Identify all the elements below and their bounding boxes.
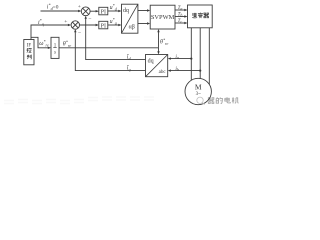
arrow into dq/ab upper	[118, 10, 121, 12]
wire: summing junction 1 to PI1	[90, 10, 98, 12]
arrow into dq/ab lower	[118, 24, 121, 26]
arrow into summing junction 1	[78, 10, 81, 12]
wire: PI2 to dq/ab block, uq*	[108, 24, 121, 26]
wire: theta* branch up into SVPWM	[158, 30, 160, 48]
svg-text:αβ: αβ	[129, 25, 135, 31]
SVPWM block	[150, 5, 175, 29]
svg-text:3~: 3~	[196, 92, 202, 97]
svg-text:PI: PI	[101, 23, 106, 29]
arrow into SVPWM lower	[147, 22, 150, 24]
arrow into inverter Tb	[184, 15, 187, 17]
arrow into inverter Ta	[184, 9, 187, 11]
wire: dq/ab to SVPWM lower	[138, 23, 149, 25]
svg-text:IF: IF	[27, 43, 32, 48]
svg-text:M: M	[195, 83, 202, 92]
integrator 1/s block	[51, 37, 59, 58]
PI controller 2	[99, 21, 108, 29]
svg-text:−: −	[78, 30, 81, 36]
summing junction 2 (iq)	[71, 21, 79, 29]
svg-text:−: −	[88, 16, 91, 22]
arrow up into summing junction 2 bottom	[74, 29, 76, 32]
wire: ib tap to dq/abc	[169, 70, 200, 72]
arrow into dq/abc right lower (ib)	[168, 69, 171, 71]
wire: dq/ab to SVPWM upper	[138, 10, 149, 12]
wire: feedback id vertical into summing junction 1	[86, 17, 146, 60]
arrow down into dq/abc top (theta)	[157, 51, 159, 54]
svg-text:Ta: Ta	[178, 6, 183, 11]
wire: PI1 to dq/ab block, ud*	[108, 10, 121, 12]
wire: summing junction 2 to PI2	[80, 24, 98, 26]
wire: omega* path from IF control to 1/s	[31, 37, 50, 48]
svg-text:+: +	[78, 4, 81, 10]
svg-text:SVPWM: SVPWM	[151, 14, 175, 21]
wire: ia tap to dq/abc	[169, 58, 191, 60]
inverter block (ni bian qi)	[188, 5, 213, 28]
svg-text:+: +	[64, 19, 67, 25]
arrow into PI2	[96, 24, 99, 26]
IF control block	[24, 40, 34, 65]
arrow into inverter Tc	[184, 22, 187, 24]
svg-text:PI: PI	[101, 9, 106, 15]
wire: phase line b from inverter to motor	[199, 28, 201, 79]
svg-text:ib: ib	[175, 66, 179, 72]
PI controller 1	[99, 7, 108, 15]
wire: phase line c from inverter to motor	[208, 28, 210, 85]
watermark logo circle	[197, 97, 205, 104]
svg-text:abc: abc	[159, 70, 167, 75]
wire: SVPWM to inverter Ta	[175, 9, 186, 11]
svg-text:Tc: Tc	[178, 19, 183, 24]
arrowheads	[48, 9, 201, 72]
svg-text:dq: dq	[123, 8, 129, 14]
wire: phase line a from inverter to motor	[190, 28, 192, 81]
wire: i_d* reference into summing junction 1	[41, 10, 81, 12]
watermark text (de dian ji)	[208, 97, 238, 103]
wire: theta* branch down into dq/abc	[158, 48, 160, 53]
junction dot ib tap	[199, 70, 201, 72]
junction dot ia tap	[190, 58, 192, 60]
summing junction 1 (id)	[81, 7, 90, 16]
arrow into 1/s	[48, 47, 51, 49]
wire: SVPWM to inverter Tb	[175, 16, 186, 18]
arrow into dq/abc right upper (ia)	[168, 57, 171, 59]
wire: feedback iq vertical into summing junction 2	[75, 30, 145, 70]
dq/alphabeta transform block	[122, 4, 138, 33]
wire: SVPWM to inverter Tc	[175, 22, 186, 24]
arrow into SVPWM upper	[147, 9, 150, 11]
arrow up into summing junction 1 bottom	[85, 16, 87, 19]
svg-text:s: s	[54, 50, 56, 55]
wire: iq* from IF control riser into summing junction 2	[31, 25, 70, 40]
faint bottom watermark strip	[4, 97, 154, 104]
svg-text:dq: dq	[148, 58, 154, 64]
motor M circle	[185, 78, 211, 104]
svg-text:ia: ia	[175, 54, 179, 60]
arrow into summing junction 2	[68, 24, 71, 26]
svg-text:Tb: Tb	[178, 12, 183, 17]
arrow into PI1	[96, 10, 99, 12]
wire: theta* long wire from 1/s to vertical branch	[59, 47, 159, 49]
svg-text:îq: îq	[127, 66, 131, 72]
arrow up into SVPWM bottom (theta)	[157, 29, 159, 32]
dq/abc transform block	[146, 55, 168, 77]
